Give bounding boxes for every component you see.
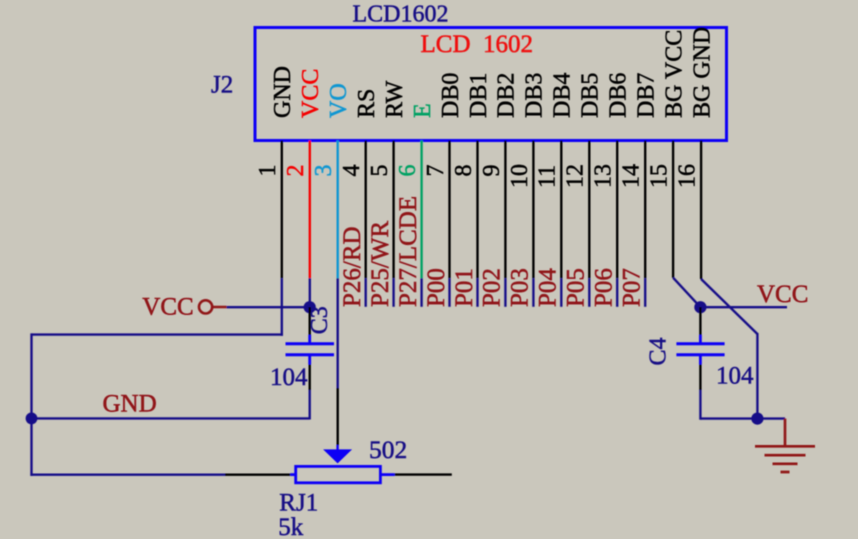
wire: pin 4 stub from box [365, 141, 367, 279]
svg-text:4: 4 [339, 165, 365, 177]
svg-text:8: 8 [451, 165, 477, 177]
wire: C4 top lead black [699, 307, 701, 335]
wire: net stub end pin 4 [365, 278, 367, 307]
svg-text:VCC: VCC [298, 69, 324, 118]
wire: GND left vertical [30, 333, 32, 476]
svg-text:15: 15 [647, 164, 673, 188]
svg-text:DB5: DB5 [578, 73, 604, 118]
wire: RJ1 left terminal stub [290, 473, 295, 476]
svg-text:3: 3 [311, 165, 337, 177]
wire: C4 bottom lead black [699, 365, 701, 391]
svg-text:DB4: DB4 [550, 73, 576, 118]
wire: pin 15 stub from box [672, 141, 674, 278]
svg-text:10: 10 [507, 164, 533, 188]
wire: GND rail to C3 [32, 417, 310, 419]
wire: bottom rail navy part [30, 474, 225, 476]
svg-text:DB6: DB6 [606, 73, 632, 118]
wire: pin 2 stub from box [309, 141, 311, 279]
svg-text:P00: P00 [423, 268, 450, 307]
wire: RJ1 wiper blue stub [336, 445, 338, 450]
wire: pin 9 stub from box [504, 141, 506, 279]
svg-text:GND: GND [103, 391, 157, 418]
power terminal VCC (left) [199, 300, 212, 313]
wire: pin1 GND drop [281, 278, 283, 336]
svg-text:VCC: VCC [142, 293, 193, 320]
wire: pin 3 stub from box [337, 141, 339, 279]
junction: VCC/C4/pin15 node [694, 301, 706, 313]
svg-text:DB3: DB3 [522, 73, 548, 118]
wire: net stub end pin 9 [504, 278, 506, 307]
svg-text:5k: 5k [278, 514, 304, 541]
wire: net stub end pin 11 [560, 278, 562, 307]
svg-text:P06: P06 [591, 268, 618, 307]
svg-text:12: 12 [563, 164, 589, 188]
ground symbol [755, 419, 815, 472]
wire: C4 bottom lead navy [699, 390, 701, 420]
potentiometer RJ1 body [296, 466, 381, 482]
svg-text:P27/LCDE: P27/LCDE [395, 196, 422, 307]
svg-text:DB0: DB0 [438, 73, 464, 118]
wire: pin16 diagonal [701, 279, 757, 334]
svg-text:13: 13 [591, 164, 617, 188]
junction: ground node [751, 413, 763, 425]
wire: ground node stub right [757, 417, 785, 419]
svg-text:7: 7 [423, 165, 449, 177]
wire: net stub end pin 5 [392, 278, 394, 307]
svg-text:P07: P07 [619, 268, 646, 307]
svg-text:P03: P03 [507, 268, 534, 307]
svg-text:14: 14 [619, 164, 645, 188]
svg-text:LCD1602: LCD1602 [353, 2, 449, 28]
wire: pin 10 stub from box [532, 141, 534, 279]
wire: net stub end pin 10 [532, 278, 534, 307]
svg-text:GND: GND [270, 66, 296, 118]
svg-text:11: 11 [535, 165, 561, 188]
wire: C3 bottom lead black [309, 365, 311, 391]
wire: pin 7 stub from box [448, 141, 450, 279]
capacitor C3 [286, 335, 335, 365]
wire: pin 12 stub from box [588, 141, 590, 279]
junction: GND rail node [26, 413, 38, 425]
wire: pin 5 stub from box [392, 141, 394, 279]
svg-text:RS: RS [354, 89, 380, 118]
svg-text:J2: J2 [211, 72, 233, 99]
svg-text:BG GND: BG GND [689, 27, 715, 118]
wire: bottom rail black part to RJ1 [225, 474, 290, 476]
svg-text:2: 2 [283, 165, 309, 177]
svg-text:BG VCC: BG VCC [661, 30, 687, 118]
svg-text:6: 6 [395, 165, 421, 177]
svg-text:DB1: DB1 [466, 73, 492, 118]
svg-text:P01: P01 [451, 268, 478, 307]
wire: pin 13 stub from box [616, 141, 618, 279]
wire: pin 1 stub from box [281, 141, 283, 279]
svg-text:DB2: DB2 [494, 73, 520, 118]
wire: VCC terminal stub [212, 306, 226, 309]
svg-text:5: 5 [367, 165, 393, 177]
svg-text:C4: C4 [646, 337, 672, 365]
svg-text:P04: P04 [535, 268, 562, 307]
wire: net stub end pin 7 [448, 278, 450, 307]
wire: net stub end pin 6 [420, 278, 422, 307]
wire: net stub end pin 13 [616, 278, 618, 307]
wire: pin 6 stub from box [420, 141, 422, 279]
wire: C3 top lead black [309, 307, 311, 335]
svg-text:DB7: DB7 [634, 73, 660, 118]
svg-text:P02: P02 [479, 268, 506, 307]
wire: net stub end pin 8 [476, 278, 478, 307]
svg-text:9: 9 [479, 165, 505, 177]
wire: net stub end pin 14 [644, 278, 646, 307]
svg-text:E: E [410, 103, 436, 118]
wire: pin 14 stub from box [644, 141, 646, 279]
svg-text:P25/WR: P25/WR [367, 221, 394, 307]
svg-text:P05: P05 [563, 268, 590, 307]
svg-text:104: 104 [716, 363, 754, 390]
svg-text:502: 502 [369, 435, 407, 464]
wire: pin16 vertical drop [756, 333, 758, 419]
wire: C3 bottom lead navy [309, 390, 311, 420]
potentiometer RJ1 wiper arrow [323, 449, 352, 463]
wire: pin2 to VCC junction [309, 278, 311, 307]
wire: VCC stub right [700, 306, 787, 308]
wire: pin15 diagonal to VCC node [673, 278, 700, 308]
connector J2 body (LCD1602 box) [255, 28, 727, 141]
wire: pin 16 stub from box [700, 141, 702, 280]
wire: pin 8 stub from box [476, 141, 478, 279]
svg-text:RW: RW [382, 80, 408, 118]
wire: C4 to ground node [700, 417, 757, 419]
wire: RJ1 right black wire [395, 473, 452, 475]
capacitor C4 [676, 335, 724, 365]
wire: GND horizontal upper [32, 333, 284, 335]
wire: pin 11 stub from box [560, 141, 562, 279]
wire: pin3 VO drop black [337, 388, 339, 445]
svg-text:C3: C3 [307, 306, 333, 334]
svg-text:16: 16 [675, 164, 701, 188]
svg-text:RJ1: RJ1 [279, 489, 318, 516]
wire: VCC to junction [227, 306, 310, 308]
junction: VCC/C3/pin2 node [304, 301, 316, 313]
wire: RJ1 right terminal stub [380, 473, 394, 476]
svg-text:1: 1 [255, 165, 281, 177]
svg-text:P26/RD: P26/RD [339, 226, 366, 307]
svg-text:VO: VO [326, 83, 352, 118]
wire: pin3 VO drop navy [337, 278, 339, 388]
wire: net stub end pin 12 [588, 278, 590, 307]
svg-text:LCD 1602: LCD 1602 [421, 31, 534, 58]
svg-text:104: 104 [270, 364, 308, 391]
svg-text:VCC: VCC [757, 281, 808, 308]
